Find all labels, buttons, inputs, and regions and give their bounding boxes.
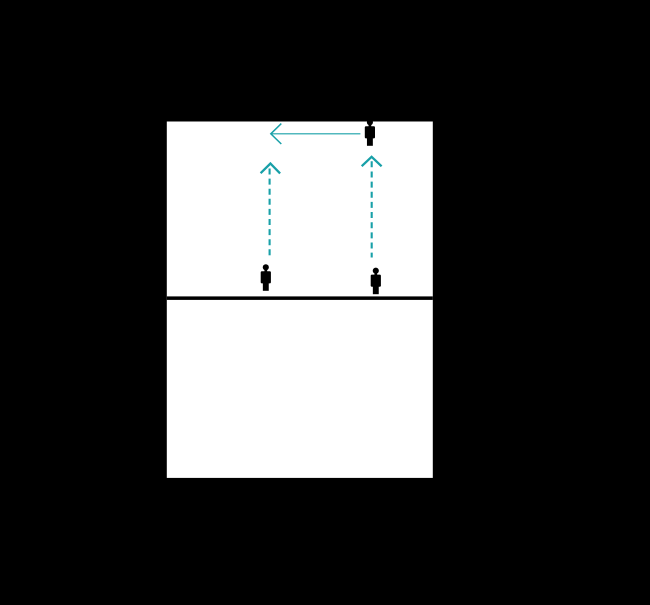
- person bottom-left: [261, 264, 271, 291]
- divider line (floor): [167, 296, 433, 300]
- person top (on upper deck): [365, 119, 375, 146]
- person bottom-right: [371, 268, 381, 295]
- horizontal arrow (velocity of top person, pointing left): [271, 124, 361, 144]
- dashed arrow right (jump path of bottom-right person): [362, 157, 382, 258]
- white panel: [167, 122, 433, 478]
- dashed arrow left (jump path of bottom-left person): [261, 164, 281, 258]
